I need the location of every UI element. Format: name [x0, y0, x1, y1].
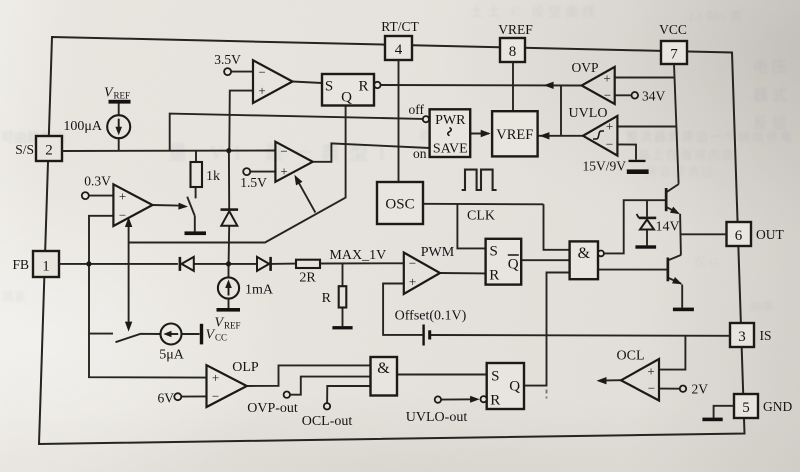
- wire 0.3V comparator output: [153, 204, 180, 207]
- svg-text:−: −: [258, 65, 265, 80]
- wire zener stub lower: [646, 230, 648, 246]
- ground bar (zener): [635, 245, 656, 248]
- svg-text:on: on: [413, 146, 427, 161]
- comparator 3.5V: [214, 52, 292, 103]
- ground bar (pin5): [702, 418, 722, 422]
- wire diode chain vertical upper: [228, 151, 230, 209]
- transistor Q2 emitter arrowhead: [672, 277, 684, 287]
- svg-text:PWM: PWM: [421, 245, 455, 260]
- wire UVLO plus to VCC rail: [617, 126, 676, 128]
- current source 5uA: [159, 324, 185, 363]
- pin 3 IS: [730, 323, 772, 347]
- svg-text:CLK: CLK: [467, 209, 495, 224]
- svg-text:OVP-out: OVP-out: [247, 401, 298, 416]
- svg-text:UVLO-out: UVLO-out: [406, 410, 468, 425]
- svg-text:+: +: [647, 364, 654, 379]
- pin 8 VREF: [498, 22, 533, 62]
- junction dot FB node left: [86, 261, 91, 266]
- wire 3.5V output to latch1 S: [293, 82, 323, 84]
- block VREF regulator: [492, 111, 537, 156]
- svg-text:8: 8: [509, 44, 517, 60]
- svg-text:V: V: [215, 316, 225, 331]
- supply VREF bar below 1mA: [215, 308, 241, 331]
- current source 100uA: [63, 115, 130, 138]
- svg-text:S: S: [491, 369, 499, 385]
- wire FB line mid: [194, 263, 258, 265]
- svg-text:0.3V: 0.3V: [84, 174, 111, 189]
- arrowhead down to 5uA switch: [125, 322, 132, 332]
- svg-text:R: R: [490, 393, 500, 409]
- comparator OVP (points left): [571, 60, 665, 104]
- ground bar (R resistor): [332, 326, 352, 329]
- svg-text:OVP: OVP: [571, 60, 598, 75]
- wire OVP-out to AND left: [290, 377, 371, 395]
- svg-text:R: R: [489, 268, 499, 284]
- wire pin4 to OSC: [398, 60, 400, 182]
- wire zener stub upper: [646, 200, 648, 217]
- svg-text:OUT: OUT: [756, 227, 784, 242]
- arrowhead to 1.5V comparator (diagonal): [291, 173, 302, 185]
- svg-text:−: −: [606, 137, 613, 152]
- wire totem mid vertical: [679, 214, 682, 255]
- wire upper transistor collector: [666, 184, 679, 192]
- wire MAX_1V line: [320, 262, 404, 264]
- comparator UVLO (points left): [569, 106, 618, 156]
- diode D3 (vertical, under S/S line): [221, 208, 239, 225]
- comparator 0.3V: [82, 174, 153, 227]
- svg-text:S: S: [325, 79, 333, 95]
- comparator OCL (points left): [617, 349, 709, 401]
- wire latch1 R-bubble to OVP line: [381, 84, 582, 87]
- arrowhead OVP line (left): [544, 82, 554, 89]
- svg-text:VREF: VREF: [496, 127, 533, 143]
- wire 100uA source stub: [118, 104, 120, 151]
- resistor R: [322, 286, 347, 307]
- wire PWM output to latch2 R: [440, 272, 486, 274]
- svg-text:&: &: [578, 245, 591, 262]
- comparator OLP: [158, 360, 259, 407]
- svg-text:CC: CC: [215, 333, 227, 343]
- arrowhead UVLO out (left into VREF): [539, 132, 549, 139]
- svg-text:R: R: [322, 291, 332, 306]
- wire AND left output to latch3 S: [397, 374, 487, 376]
- wire FB line to 2R: [271, 263, 297, 265]
- terminal circle OVP-out: [247, 392, 298, 417]
- wire FB line left: [59, 263, 178, 265]
- svg-text:OCL-out: OCL-out: [302, 414, 353, 429]
- svg-text:OCL: OCL: [617, 349, 645, 364]
- comparator PWM: [404, 245, 455, 294]
- svg-text:REF: REF: [114, 91, 131, 101]
- clock pulse waveform: [462, 170, 497, 190]
- svg-text:15V/9V: 15V/9V: [583, 159, 627, 174]
- svg-text:1mA: 1mA: [245, 283, 274, 298]
- wire stray dash under latch3 Q bend: [546, 390, 548, 399]
- wire R resistor branch: [342, 264, 344, 287]
- wire upper transistor emitter: [666, 207, 678, 213]
- svg-text:+: +: [258, 83, 265, 98]
- svg-text:S: S: [490, 244, 498, 260]
- pin 7 VCC: [659, 22, 687, 64]
- diode D1 (FB left): [179, 257, 194, 271]
- wire 1.5V comparator output to on input: [313, 143, 430, 161]
- arrowhead 0.3V output to switch: [178, 203, 188, 210]
- svg-text:UVLO: UVLO: [569, 106, 608, 121]
- IC boundary border: [39, 37, 745, 444]
- zener diode 14V: [637, 214, 680, 235]
- wire diode chain vertical lower: [228, 226, 231, 264]
- svg-text:7: 7: [670, 47, 678, 63]
- terminal circle UVLO-out: [406, 396, 468, 425]
- wire R resistor to ground: [342, 308, 344, 327]
- wire hysteresis arrow to 1.5V comparator: [297, 179, 316, 212]
- wire lower emitter to ground: [681, 285, 683, 308]
- svg-text:−: −: [604, 88, 611, 103]
- svg-text:FB: FB: [12, 257, 29, 272]
- wire off line: [170, 114, 423, 151]
- svg-text:V: V: [206, 328, 216, 343]
- supply VREF bar above 100uA: [104, 86, 131, 104]
- wire FB minus vertical to OLP: [89, 216, 207, 378]
- svg-text:RT/CT: RT/CT: [381, 19, 419, 34]
- svg-text:Offset(0.1V): Offset(0.1V): [395, 309, 467, 324]
- wire 5uA to Vcc bar: [182, 333, 200, 335]
- terminal circle OCL-out: [302, 403, 353, 429]
- svg-text:OLP: OLP: [232, 360, 259, 375]
- svg-text:3: 3: [738, 329, 746, 345]
- wire OVP plus to VCC rail: [615, 77, 675, 79]
- svg-text:VREF: VREF: [498, 22, 533, 37]
- svg-text:REF: REF: [224, 321, 241, 331]
- block PWR SAVE: [409, 102, 471, 161]
- wire UVLO-out arrow line: [441, 398, 475, 400]
- ground bar (1k switch): [185, 231, 207, 235]
- transistor Q1 emitter arrowhead: [670, 207, 682, 218]
- wire OLP minus to 6V: [181, 395, 206, 397]
- svg-text:GND: GND: [763, 399, 792, 414]
- diode D2 (FB right): [257, 257, 272, 271]
- latch U3 S-Q-R (UVLO latch): [481, 363, 525, 409]
- wire VCC rail from pin7: [674, 64, 679, 184]
- comparator 1.5V: [240, 142, 313, 190]
- wire PWR SAVE to VREF block: [470, 133, 489, 135]
- svg-text:−: −: [648, 381, 655, 396]
- svg-text:MAX_1V: MAX_1V: [329, 248, 386, 263]
- svg-text:6: 6: [735, 228, 743, 244]
- svg-text:PWR: PWR: [435, 113, 466, 128]
- wire latch1 Q to soft-start diagonal: [129, 106, 346, 243]
- wire offset battery to IS pin3: [431, 334, 730, 337]
- svg-text:−: −: [409, 256, 416, 271]
- transistor Q1 upper (base bar): [665, 188, 668, 211]
- wire 5uA switch contact: [89, 333, 113, 335]
- svg-text:V: V: [104, 86, 114, 101]
- svg-text:100μA: 100μA: [63, 119, 103, 134]
- svg-text:Q: Q: [509, 379, 520, 395]
- wire 3.5V minus input: [231, 71, 253, 73]
- svg-text:1k: 1k: [206, 169, 220, 184]
- svg-text:R: R: [358, 79, 368, 95]
- svg-text:3.5V: 3.5V: [214, 52, 241, 67]
- svg-text:+: +: [603, 71, 610, 86]
- wire 3.5V comparator plus input: [229, 91, 253, 151]
- svg-text:−: −: [280, 144, 287, 159]
- svg-text:5μA: 5μA: [159, 348, 185, 363]
- svg-text:Q: Q: [341, 90, 352, 106]
- pin 5 GND: [734, 394, 792, 418]
- pin 1 FB: [12, 251, 59, 277]
- wire 1k switch ground stub: [194, 216, 196, 232]
- wire pin5 ground hook: [714, 406, 734, 418]
- svg-text:+: +: [280, 164, 287, 179]
- current source 1mA: [218, 277, 274, 298]
- wire OVP minus to 34V: [615, 94, 632, 96]
- arrowhead UVLO-out (right): [470, 396, 480, 403]
- wire switch blade 5uA: [116, 334, 161, 342]
- wire hysteresis vertical with arrows: [128, 221, 130, 328]
- resistor 2R: [296, 260, 320, 286]
- wire OCL minus to 2V: [659, 388, 680, 390]
- wire OVP to UVLO branch: [560, 85, 562, 136]
- block OSC: [377, 182, 495, 224]
- wire latch3 Q to AND: [524, 273, 570, 386]
- offset battery 0.1V: [395, 309, 467, 346]
- AND gate G1 (output stage): [570, 241, 604, 279]
- svg-text:off: off: [409, 102, 425, 117]
- resistor 1k: [191, 162, 221, 187]
- wire OCL output arrow line: [600, 379, 621, 381]
- svg-text:OSC: OSC: [385, 197, 414, 213]
- svg-text:IS: IS: [760, 328, 772, 343]
- threshold ground 15V/9V (thin and thick bars): [583, 159, 649, 175]
- pin 4 RT/CT: [381, 19, 419, 60]
- svg-text:S/S: S/S: [15, 142, 34, 157]
- wire lower transistor collector: [668, 255, 681, 261]
- arrowhead up to 0.3V comparator: [125, 217, 132, 227]
- svg-text:−: −: [212, 389, 219, 404]
- svg-text:&: &: [377, 360, 390, 377]
- wire UVLO minus to threshold ground: [617, 144, 636, 159]
- wire OCL plus to IS line: [659, 336, 685, 370]
- transistor Q2 lower (base bar): [667, 258, 670, 282]
- svg-text:VCC: VCC: [659, 22, 687, 37]
- svg-text:Q: Q: [508, 257, 519, 273]
- arrowhead OCL output (left): [597, 377, 607, 384]
- wire latch2 Qbar to AND: [521, 259, 569, 261]
- svg-text:4: 4: [395, 42, 403, 58]
- pin 6 OUT: [727, 222, 785, 246]
- wire CLK to latch2 S: [457, 204, 485, 248]
- wire 1k switch blade: [187, 197, 195, 216]
- svg-text:1.5V: 1.5V: [240, 175, 267, 190]
- wire pin8 to VREF block: [512, 62, 514, 111]
- wire PWM plus input to offset battery: [383, 284, 422, 335]
- svg-text:2R: 2R: [299, 271, 316, 286]
- wire S/S line: [62, 150, 275, 153]
- svg-text:14V: 14V: [656, 220, 680, 235]
- wire 1mA stubs: [228, 264, 230, 308]
- svg-text:2V: 2V: [692, 382, 709, 397]
- latch U2 S-Qbar-R: [486, 239, 522, 285]
- svg-text:+: +: [119, 189, 126, 204]
- ground bar (lower emitter): [673, 308, 694, 312]
- pin 2 S/S: [15, 136, 62, 161]
- wire OLP output to AND left: [247, 365, 371, 386]
- wire AND bubble output to upper base: [604, 200, 666, 253]
- svg-text:1: 1: [42, 259, 50, 275]
- wire lower transistor emitter: [668, 278, 681, 284]
- svg-text:2: 2: [45, 143, 53, 159]
- wire UVLO output to VREF block: [538, 135, 583, 137]
- wire CLK to AND gate: [544, 204, 570, 250]
- wire 0.3V plus input: [89, 195, 114, 197]
- svg-text:6V: 6V: [158, 391, 175, 406]
- junction dot S/S diode node: [226, 148, 231, 153]
- arrowhead PWRSAVE to VREF (right): [481, 130, 491, 137]
- latch U1 S-Q-R: [322, 74, 381, 106]
- AND gate G2 (protection): [371, 357, 398, 396]
- wire 1k resistor stubs: [195, 151, 197, 199]
- svg-text:5: 5: [742, 400, 750, 416]
- wire OSC output CLK: [423, 203, 544, 206]
- svg-text:SAVE: SAVE: [433, 142, 468, 157]
- svg-text:−: −: [119, 208, 126, 223]
- wire AND direct output to lower base: [598, 269, 668, 271]
- supply VCC bar right of 5uA: [200, 324, 227, 345]
- wire OUT node to pin6: [680, 233, 726, 235]
- svg-text:34V: 34V: [642, 89, 666, 104]
- wire OCL-out to AND left: [327, 386, 370, 403]
- svg-text:+: +: [212, 370, 219, 385]
- ghost bleed-through text: [1, 127, 66, 146]
- wire 1.5V plus input: [250, 171, 275, 173]
- svg-text:+: +: [409, 274, 416, 289]
- junction dot FB diode node: [226, 261, 231, 266]
